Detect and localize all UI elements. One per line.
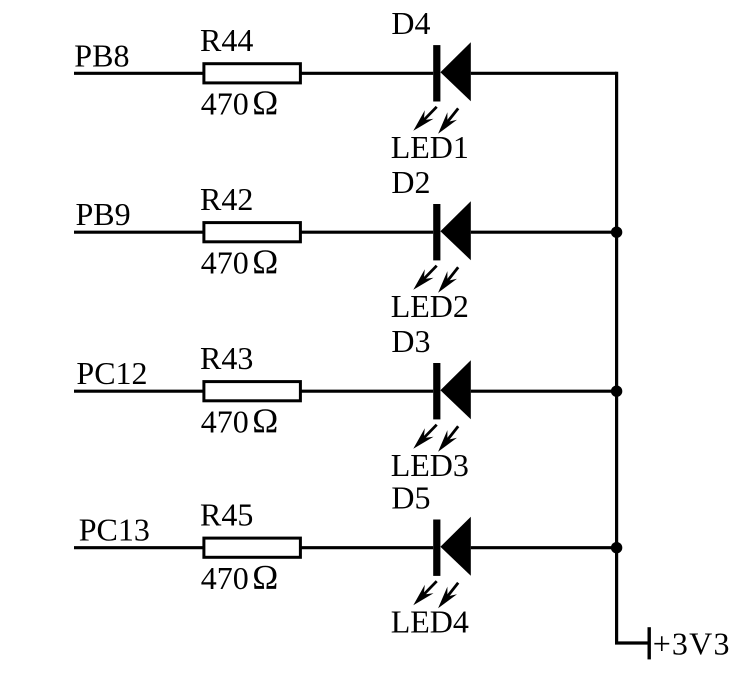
junction xyxy=(611,386,622,397)
wire xyxy=(74,390,204,393)
resistor R42 xyxy=(204,223,301,242)
resistor R44 xyxy=(204,64,301,83)
svg-text:470Ω: 470Ω xyxy=(201,402,279,441)
wire xyxy=(74,231,204,234)
wire xyxy=(471,231,617,234)
wire xyxy=(300,390,433,393)
LED D3 xyxy=(413,360,471,452)
svg-text:R45: R45 xyxy=(200,496,253,532)
svg-text:LED3: LED3 xyxy=(391,447,469,483)
power +3V3 xyxy=(648,627,651,659)
svg-text:R44: R44 xyxy=(200,22,253,58)
LED D5 xyxy=(413,517,471,609)
resistor R45 xyxy=(204,538,301,557)
svg-text:R43: R43 xyxy=(200,340,253,376)
junction xyxy=(611,227,622,238)
svg-text:PC12: PC12 xyxy=(76,355,147,391)
wire xyxy=(471,546,617,549)
svg-text:PB9: PB9 xyxy=(76,196,131,232)
resistor R43 xyxy=(204,382,301,401)
svg-text:470Ω: 470Ω xyxy=(201,558,279,597)
svg-text:D5: D5 xyxy=(391,480,430,516)
svg-text:LED4: LED4 xyxy=(391,604,469,640)
svg-text:LED1: LED1 xyxy=(391,129,469,165)
svg-text:D3: D3 xyxy=(391,323,430,359)
wire xyxy=(615,641,649,644)
svg-text:D4: D4 xyxy=(391,5,430,41)
junction xyxy=(611,542,622,553)
LED D4 xyxy=(413,42,471,134)
wire xyxy=(300,72,433,75)
svg-text:LED2: LED2 xyxy=(391,288,469,324)
wire xyxy=(300,231,433,234)
svg-text:R42: R42 xyxy=(200,181,253,217)
wire xyxy=(74,546,204,549)
svg-text:470Ω: 470Ω xyxy=(201,243,279,282)
wire xyxy=(471,390,617,393)
svg-text:PC13: PC13 xyxy=(79,512,150,548)
svg-text:+3V3: +3V3 xyxy=(653,626,731,662)
wire xyxy=(471,72,617,75)
svg-text:PB8: PB8 xyxy=(74,37,129,73)
LED D2 xyxy=(413,201,471,293)
svg-text:470Ω: 470Ω xyxy=(201,84,279,123)
wire xyxy=(300,546,433,549)
wire xyxy=(74,72,204,75)
svg-text:D2: D2 xyxy=(391,164,430,200)
wire xyxy=(615,72,618,643)
